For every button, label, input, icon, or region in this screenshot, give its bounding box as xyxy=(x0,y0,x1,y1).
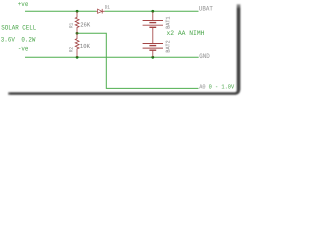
svg-text:UBAT: UBAT xyxy=(199,6,213,14)
svg-text:+ve: +ve xyxy=(18,1,29,9)
svg-text:D1: D1 xyxy=(105,5,110,11)
svg-text:SOLAR CELL: SOLAR CELL xyxy=(1,25,36,33)
svg-text:BAT2: BAT2 xyxy=(164,40,171,53)
svg-text:26K: 26K xyxy=(80,22,90,29)
svg-text:-ve: -ve xyxy=(18,46,29,54)
svg-text:0 - 1.0V: 0 - 1.0V xyxy=(209,83,235,90)
svg-text:R1: R1 xyxy=(69,23,75,28)
svg-text:x2 AA NIMH: x2 AA NIMH xyxy=(167,30,205,38)
svg-text:3.6V: 3.6V xyxy=(1,36,16,44)
svg-text:R2: R2 xyxy=(69,47,75,52)
svg-text:10K: 10K xyxy=(80,43,90,50)
svg-text:BAT1: BAT1 xyxy=(164,16,171,29)
svg-text:A0: A0 xyxy=(199,83,206,90)
svg-text:0.2W: 0.2W xyxy=(21,36,36,44)
svg-text:GND: GND xyxy=(199,53,210,61)
